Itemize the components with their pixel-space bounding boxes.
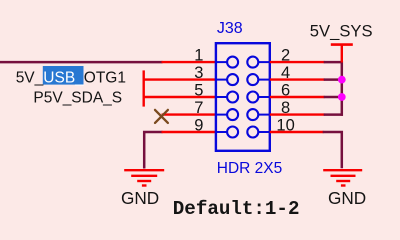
pin pad 4	[247, 74, 258, 85]
pin pad 2	[247, 57, 258, 68]
svg-text:7: 7	[194, 99, 203, 117]
pin pad 5	[227, 92, 238, 103]
wire pin3	[144, 78, 216, 80]
connector J38 body	[216, 43, 270, 151]
svg-text:Default:1-2: Default:1-2	[173, 198, 300, 220]
wire pin4 red segment	[270, 78, 325, 80]
wire pin9 red segment	[162, 131, 216, 133]
pin pad 8	[247, 109, 258, 120]
power port 5V_SYS stem	[341, 45, 343, 63]
net label 5V_USB_OTG1 with selected text "USB_"	[16, 66, 126, 86]
pin pad 6	[247, 92, 258, 103]
wire pin5	[144, 96, 216, 98]
wire pin1 (red segment)	[162, 61, 216, 63]
svg-text:5: 5	[194, 82, 203, 100]
wire pin8 maroon segment with corner up	[324, 113, 343, 116]
svg-text:J38: J38	[217, 20, 243, 37]
pin pad 7	[227, 109, 238, 120]
wire pin7	[162, 113, 216, 115]
svg-text:9: 9	[194, 117, 203, 135]
pin pad 10	[247, 127, 258, 138]
wire vertical 5V_SYS bus	[341, 61, 344, 116]
svg-text:5V_SYS: 5V_SYS	[310, 21, 373, 40]
svg-text:5V_USB_OTG1: 5V_USB_OTG1	[16, 69, 126, 86]
wire pin9 maroon segment with corner to left GND	[144, 132, 162, 169]
svg-text:1: 1	[194, 47, 203, 65]
wire pin8 red segment	[270, 113, 325, 115]
wire pin4 maroon segment	[324, 78, 342, 81]
pin stubs inside body	[216, 62, 270, 132]
wire pin6 maroon segment	[324, 96, 342, 99]
pin pads: left column circles	[227, 57, 258, 138]
wire pin10 red segment	[270, 131, 324, 133]
ground symbol right	[323, 170, 362, 185]
svg-text:HDR 2X5: HDR 2X5	[217, 160, 282, 177]
wire pin10 maroon segment with corner down to right GND	[323, 132, 342, 168]
ground symbol left	[124, 170, 164, 185]
svg-text:GND: GND	[328, 188, 366, 208]
svg-text:3: 3	[194, 64, 203, 82]
wire pin2 red segment	[270, 61, 325, 63]
wire pin2 maroon segment	[324, 61, 343, 64]
pin pad 1	[227, 57, 238, 68]
svg-text:GND: GND	[121, 188, 159, 208]
pin pad 9	[227, 127, 238, 138]
junction dot pin6	[338, 93, 346, 101]
wire net 5V_USB_OTG1 (maroon segment, pin1 row)	[0, 61, 163, 64]
no-ERC cross on pin7	[155, 110, 168, 123]
junction dot pin4	[338, 76, 346, 84]
wire pin6 red segment	[270, 96, 325, 98]
wire vertical joining pins 3 and 5	[142, 70, 144, 106]
power port 5V_SYS bar	[331, 43, 353, 46]
pin pad 3	[227, 74, 238, 85]
svg-text:P5V_SDA_S: P5V_SDA_S	[33, 89, 122, 106]
